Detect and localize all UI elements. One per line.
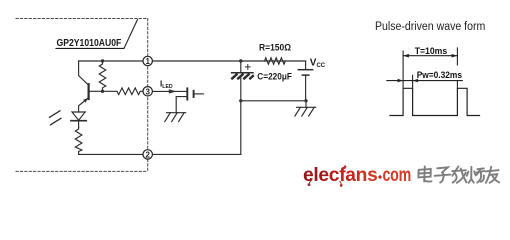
capacitor C2 plates (LED drive coupling) <box>186 88 188 99</box>
wire: top rail from collector corner through node 1 to Vcc corner <box>79 60 306 62</box>
pulse train <box>390 88 480 115</box>
svg-text:R=150Ω: R=150Ω <box>259 43 291 53</box>
svg-text:GP2Y1010AU0F: GP2Y1010AU0F <box>57 37 122 49</box>
dimension T line <box>403 55 457 57</box>
transistor Q1 base bar <box>87 84 89 99</box>
dashed package outline (sensor body) <box>16 19 148 172</box>
wire: base of Q1 <box>89 90 103 92</box>
node: rail / R1 <box>101 59 104 62</box>
dimension T tick right <box>456 48 458 65</box>
resistor R4 150ohm (horizontal) <box>265 58 286 64</box>
char shao (burn) <box>467 167 484 183</box>
label: part name <box>56 37 125 49</box>
ground G2 <box>295 107 316 116</box>
svg-text:2: 2 <box>145 150 150 159</box>
svg-text:elecfans: elecfans <box>303 165 378 186</box>
pulse fall edge tick <box>412 75 414 88</box>
resistor R3 (base drive, horizontal) <box>103 88 144 95</box>
waveform drawing <box>387 48 480 116</box>
svg-text:T=10ms: T=10ms <box>415 46 448 57</box>
plus sign at C1 <box>245 65 250 70</box>
svg-text:Pw=0.32ms: Pw=0.32ms <box>417 70 462 80</box>
leader line from part label to outline <box>124 20 138 49</box>
arrow: ILED current <box>169 89 177 93</box>
node: rail / C1 <box>239 59 242 62</box>
arrow: Pw dimension left <box>398 79 403 83</box>
pin terminal 1 <box>143 56 152 66</box>
wire: collector of Q1 <box>79 61 89 85</box>
svg-text:com: com <box>383 165 412 186</box>
transistor Q1 emitter with arrow <box>79 98 89 113</box>
junction dots <box>101 59 308 102</box>
char you (friend) <box>485 167 499 183</box>
char zi (child) <box>435 167 451 182</box>
node: gnd rail left <box>239 99 242 102</box>
node: base junction <box>101 90 104 93</box>
capacitor C1 220uF top plate <box>232 72 253 74</box>
svg-text:C=220μF: C=220μF <box>257 72 292 82</box>
logo: chinese characters dian zi fa shao you <box>418 166 499 182</box>
node: gnd rail right <box>304 99 307 102</box>
arrow: T dimension left <box>403 54 409 58</box>
wire: stub to ground G2 <box>305 101 307 107</box>
wire: C1 leads <box>240 61 242 73</box>
arrow: emitter of Q1 <box>83 98 88 102</box>
capacitor C1 hatched bottom plate <box>232 75 253 79</box>
LED D1 (emitter diode) <box>72 112 85 120</box>
wire: bottom rail from R2 through node 2 to capacitor leg <box>79 153 241 155</box>
capacitor C3 plates (Vcc bypass) <box>298 69 312 71</box>
pin terminal 3 <box>143 87 152 97</box>
wire: Vcc corner down through C3 <box>305 61 307 69</box>
logo: elecfans.com <box>303 165 411 187</box>
resistor R2 (LED series, vertical) <box>75 128 82 155</box>
dimension Pw underline <box>387 80 462 82</box>
svg-text:1: 1 <box>145 57 150 66</box>
char dian (electric) <box>418 167 431 182</box>
arrow: T dimension right <box>452 54 458 58</box>
resistor R1 (base pull, vertical) <box>99 61 106 91</box>
svg-text:3: 3 <box>145 87 150 96</box>
arrow: Pw dimension right <box>413 79 418 83</box>
svg-text:Pulse-driven wave form: Pulse-driven wave form <box>375 21 485 33</box>
pin terminal 2 <box>143 150 152 160</box>
dimension T tick left / pulse rise extension <box>402 51 404 88</box>
wire: capacitor to ground <box>176 97 187 113</box>
ground G1 <box>165 113 186 122</box>
light emission arrows <box>50 111 61 118</box>
wire: ground return rail <box>241 100 306 102</box>
right pulse rise tick <box>456 81 458 89</box>
wire: node 3 to coupling capacitor <box>152 90 186 92</box>
char fa (emit) <box>452 166 466 182</box>
